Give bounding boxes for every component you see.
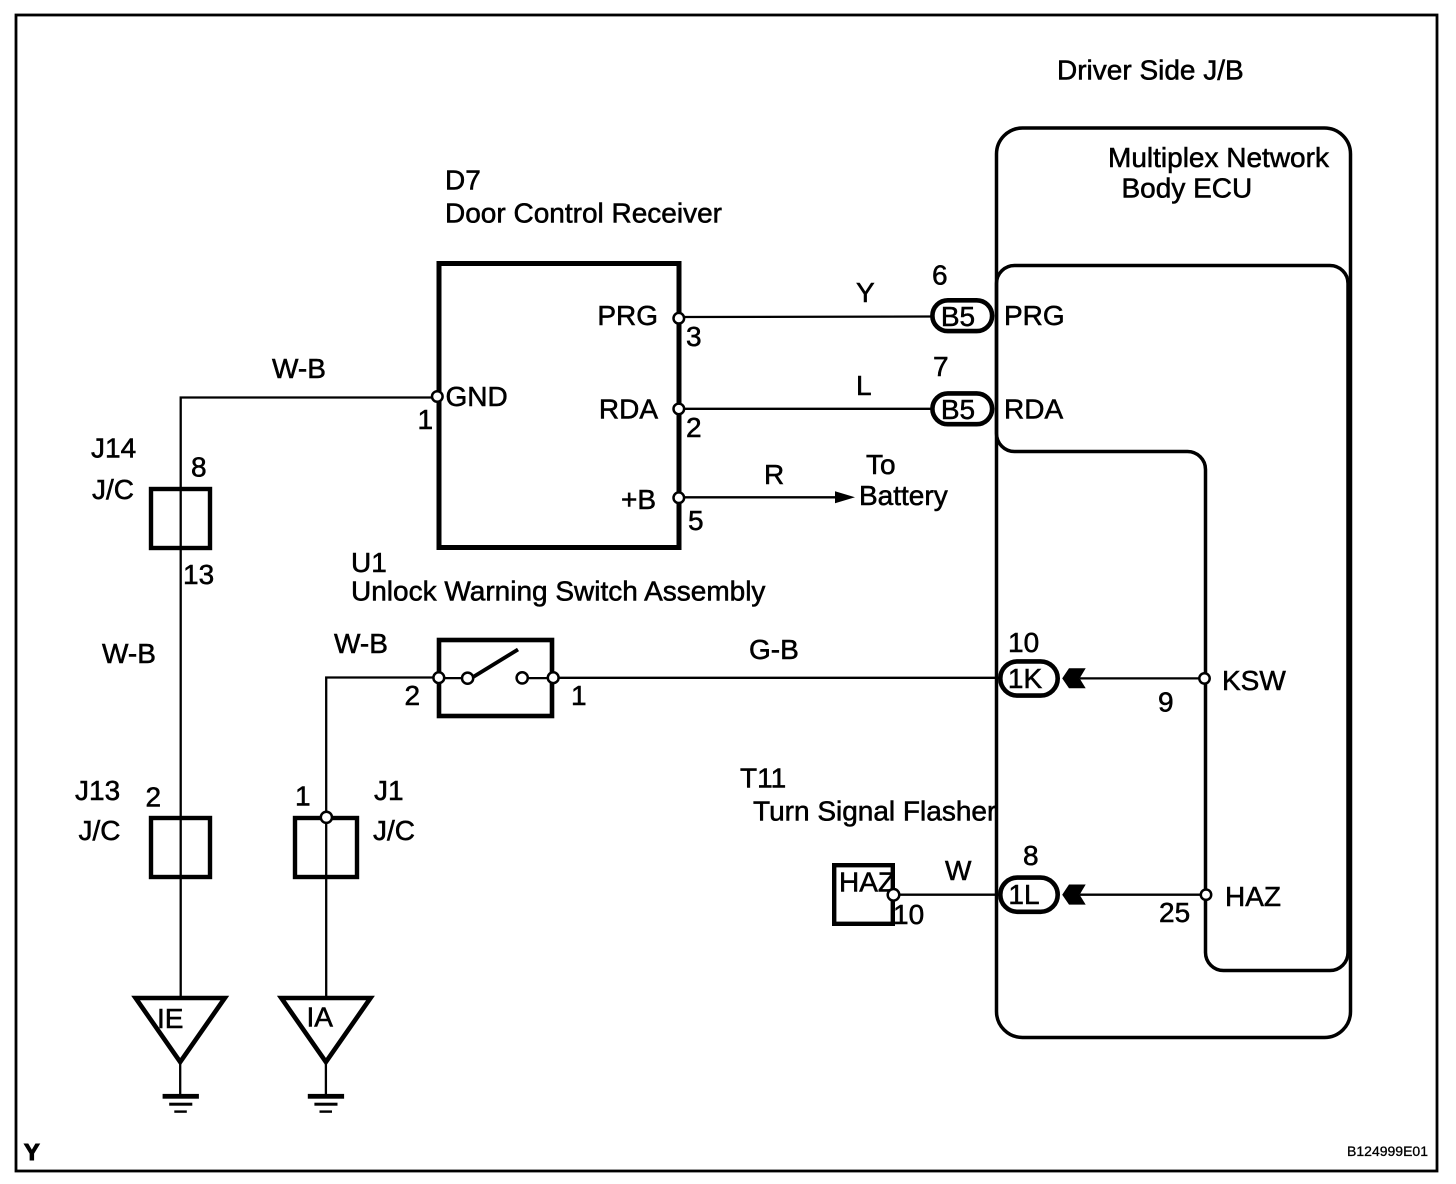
svg-text:2: 2: [405, 680, 421, 711]
svg-text:1: 1: [418, 404, 434, 435]
wire through J14 down to IE triangle: [180, 488, 182, 998]
svg-text:RDA: RDA: [599, 394, 658, 425]
svg-text:W-B: W-B: [272, 353, 326, 384]
U1 switch box: [439, 640, 552, 716]
svg-text:J1: J1: [374, 775, 404, 806]
wire L : RDA to B5: [684, 408, 934, 410]
svg-text:J13: J13: [75, 775, 120, 806]
svg-text:Multiplex Network: Multiplex Network: [1108, 142, 1330, 173]
svg-text:To: To: [866, 449, 896, 480]
svg-text:1L: 1L: [1008, 879, 1039, 910]
svg-text:6: 6: [932, 260, 948, 291]
svg-text:D7: D7: [445, 165, 481, 196]
node HAZ: [1201, 890, 1211, 900]
connector 1L: [1000, 878, 1057, 912]
svg-text:13: 13: [183, 559, 214, 590]
svg-text:G-B: G-B: [749, 634, 799, 665]
HAZ box pin circle: [888, 889, 900, 901]
D7 box: [439, 264, 679, 548]
svg-text:L: L: [856, 370, 872, 401]
svg-text:25: 25: [1159, 897, 1190, 928]
svg-text:IE: IE: [157, 1003, 183, 1034]
svg-text:8: 8: [191, 452, 207, 483]
svg-text:W-B: W-B: [102, 638, 156, 669]
ground symbol IE: [163, 1094, 199, 1099]
svg-text:+B: +B: [621, 484, 656, 515]
svg-text:HAZ: HAZ: [839, 867, 895, 898]
svg-text:RDA: RDA: [1004, 394, 1063, 425]
svg-text:J/C: J/C: [373, 815, 415, 846]
svg-text:Door Control Receiver: Door Control Receiver: [445, 198, 722, 229]
junction J1 box: [295, 818, 357, 877]
connector B5 (RDA): [932, 393, 992, 424]
ground triangle IE: [136, 998, 225, 1062]
svg-text:7: 7: [933, 351, 949, 382]
wire to ground IE: [179, 1062, 181, 1095]
wire switch pin 2 to movable contact: [438, 677, 468, 679]
svg-text:T11: T11: [740, 763, 786, 794]
svg-text:Y: Y: [24, 1139, 40, 1165]
svg-text:1K: 1K: [1008, 663, 1043, 694]
svg-text:Battery: Battery: [859, 480, 948, 511]
svg-text:3: 3: [686, 321, 702, 352]
ECU inner connector block outline: [997, 266, 1349, 971]
wire to ground IA: [325, 1062, 327, 1095]
W-B wire from GND to left and down to J14: [181, 398, 432, 489]
svg-text:1: 1: [295, 781, 311, 812]
switch pin 1 terminal circle (U1): [548, 672, 559, 683]
switch lever: [472, 650, 519, 679]
svg-text:R: R: [764, 459, 784, 490]
node circle on J1: [321, 812, 332, 823]
pin 5 circle +B (D7): [674, 492, 685, 503]
arrow at 1L: [1062, 885, 1086, 905]
wire W-B from U1 pin2 left and down to J1: [326, 678, 433, 818]
svg-text:Turn Signal Flasher: Turn Signal Flasher: [753, 796, 996, 827]
svg-text:U1: U1: [351, 547, 387, 578]
ECU block outer (Multiplex Network Body ECU): [997, 128, 1351, 1038]
svg-text:Y: Y: [856, 277, 875, 308]
svg-text:W-B: W-B: [334, 628, 388, 659]
svg-text:J/C: J/C: [79, 815, 121, 846]
svg-text:10: 10: [893, 899, 924, 930]
svg-text:10: 10: [1008, 627, 1039, 658]
svg-text:HAZ: HAZ: [1225, 881, 1281, 912]
svg-text:2: 2: [686, 412, 702, 443]
svg-text:Body ECU: Body ECU: [1122, 173, 1253, 204]
svg-text:Unlock Warning Switch Assembly: Unlock Warning Switch Assembly: [351, 576, 765, 607]
connector B5 (PRG): [932, 300, 992, 331]
svg-text:W: W: [945, 855, 972, 886]
switch movable contact circle (U1): [462, 673, 473, 684]
GND pin circle: [432, 391, 443, 402]
connector 1K: [1000, 661, 1057, 695]
svg-text:B5: B5: [941, 301, 975, 332]
wire R : +B to battery arrow: [684, 496, 838, 498]
svg-text:5: 5: [688, 505, 704, 536]
svg-text:2: 2: [146, 782, 162, 813]
HAZ box (turn signal flasher T11): [834, 865, 893, 924]
switch pin 2 terminal circle (U1): [433, 672, 444, 683]
battery arrowhead: [835, 491, 855, 503]
wire G-B from U1 pin1 to 1K: [559, 677, 1000, 679]
wire fixed contact to switch pin 1: [522, 677, 554, 679]
svg-text:1: 1: [571, 680, 587, 711]
wire KSW to 1K: [1080, 677, 1205, 679]
junction J14 box: [151, 489, 210, 548]
svg-text:KSW: KSW: [1222, 665, 1286, 696]
node KSW: [1199, 673, 1209, 683]
svg-text:GND: GND: [446, 381, 508, 412]
pin 2 circle RDA (D7): [674, 404, 685, 415]
wire W from HAZ box to 1L: [893, 894, 1002, 896]
svg-text:PRG: PRG: [1004, 300, 1065, 331]
svg-text:IA: IA: [307, 1002, 334, 1033]
svg-text:Driver Side J/B: Driver Side J/B: [1057, 55, 1244, 86]
svg-text:B5: B5: [941, 394, 975, 425]
ground symbol IA: [308, 1094, 344, 1099]
svg-text:8: 8: [1023, 840, 1039, 871]
arrow at 1K: [1062, 668, 1086, 688]
junction J13 box: [151, 818, 210, 877]
wire through J1 down to IA triangle: [325, 817, 327, 998]
switch fixed contact circle (U1): [517, 672, 528, 683]
wire Y : PRG to B5: [684, 315, 934, 318]
wire HAZ to 1L: [1080, 894, 1206, 896]
svg-text:B124999E01: B124999E01: [1347, 1143, 1428, 1159]
svg-text:9: 9: [1158, 687, 1174, 718]
svg-text:PRG: PRG: [597, 300, 658, 331]
svg-text:J/C: J/C: [92, 474, 134, 505]
ground triangle IA: [281, 998, 370, 1062]
pin 3 circle PRG (D7): [674, 313, 685, 324]
svg-text:J14: J14: [91, 433, 136, 464]
